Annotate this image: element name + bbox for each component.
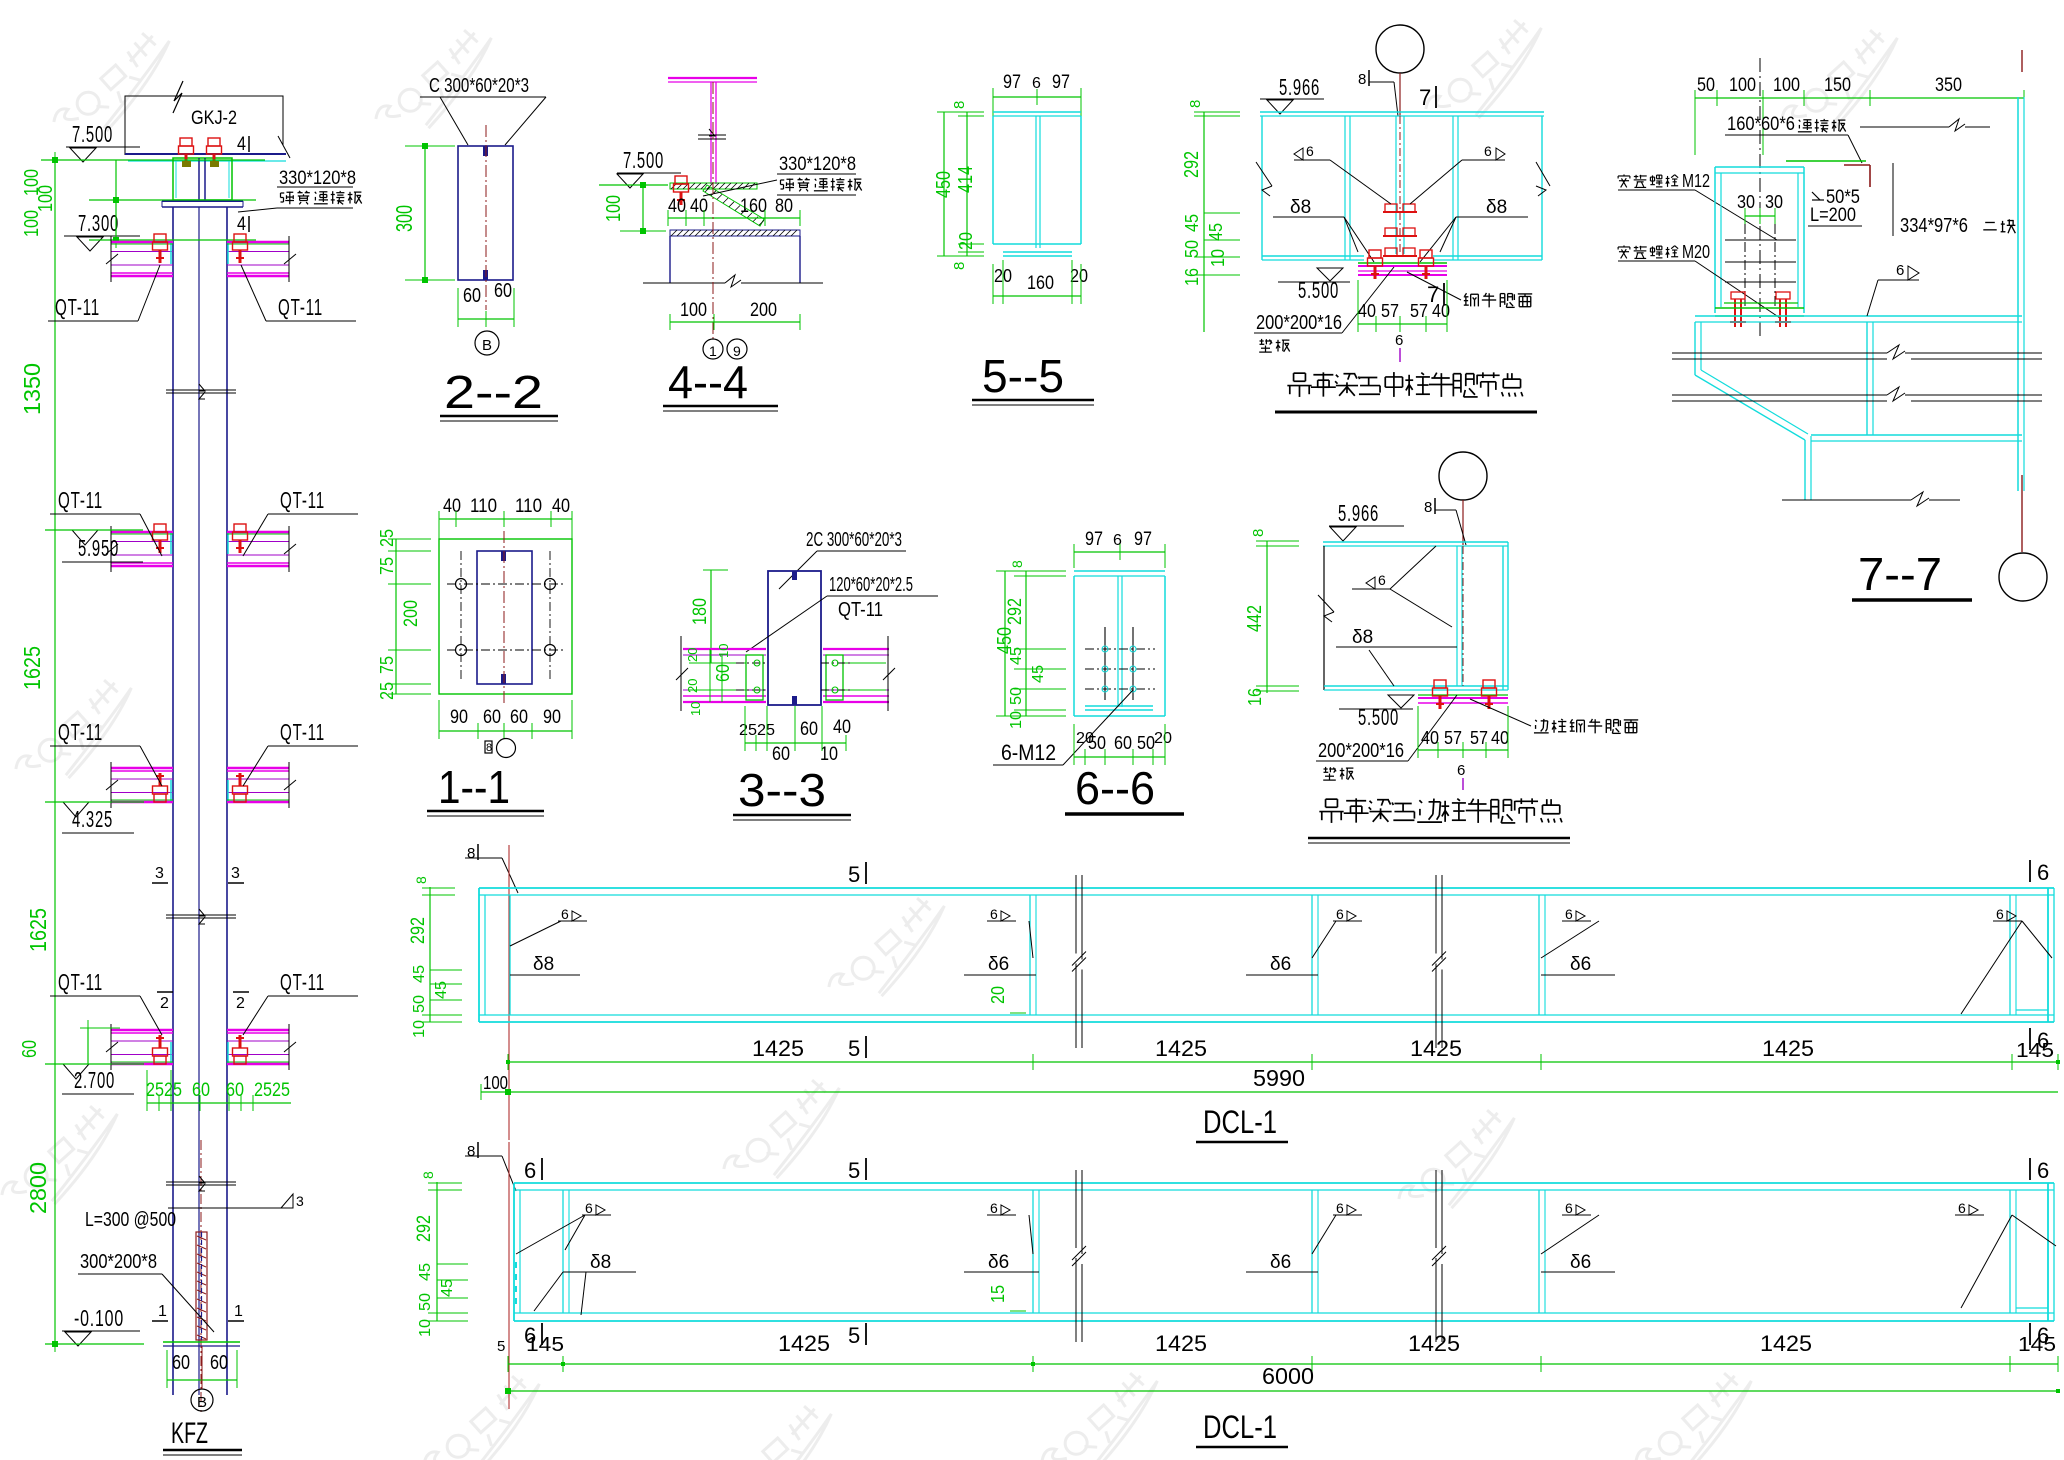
7-7 label 334*97*6 two pieces — [1893, 163, 2015, 237]
2-2 dim 300 — [391, 143, 455, 283]
node1 section mark 7| bottom — [1427, 282, 1444, 307]
beam2 delta6 #2 — [1246, 1252, 1318, 1273]
svg-text:60: 60 — [210, 1352, 228, 1374]
dim 1625 (b) — [25, 908, 51, 952]
svg-text:75: 75 — [377, 557, 397, 575]
svg-text:60: 60 — [772, 744, 790, 765]
roof break mark right — [278, 136, 290, 158]
6-6 bolt group 6-M12 — [1085, 627, 1155, 700]
3-3 dim 180 — [690, 570, 728, 663]
level 5.500 — [1339, 695, 1414, 730]
QT-11 bracket plates — [227, 524, 296, 572]
svg-text:8: 8 — [413, 876, 429, 884]
svg-text:160: 160 — [1027, 273, 1054, 294]
svg-text:60: 60 — [192, 1080, 210, 1101]
node2 label edge bracket face — [1470, 699, 1638, 733]
svg-text:1425: 1425 — [1155, 1331, 1207, 1356]
svg-text:110: 110 — [470, 496, 497, 517]
svg-text:-0.100: -0.100 — [74, 1305, 124, 1331]
beam1 weld arrow 6 #2 — [987, 906, 1033, 958]
svg-text:160: 160 — [740, 196, 767, 217]
svg-text:110: 110 — [515, 496, 542, 517]
svg-text:25: 25 — [739, 722, 757, 739]
svg-text:150: 150 — [1824, 75, 1851, 96]
3-3 label 120*60*20*2.5 / QT-11 — [746, 574, 938, 652]
node1 weld arrow 6 right — [1410, 143, 1505, 204]
beam2 weld arrow 6 #1 — [516, 1200, 611, 1254]
svg-text:5: 5 — [848, 1158, 860, 1183]
6-6 dims 97 6 97 — [1074, 529, 1165, 568]
svg-text:6--6: 6--6 — [1075, 762, 1155, 814]
5-5 I-section — [993, 112, 1081, 248]
svg-text:1425: 1425 — [1760, 1331, 1812, 1356]
7-7 top dims 50 100 100 150 350 — [1695, 75, 2024, 155]
svg-text:90: 90 — [543, 707, 561, 728]
svg-text:5: 5 — [497, 1338, 505, 1355]
grid bubble B — [191, 1346, 213, 1411]
node1 level line ext — [1260, 103, 1324, 105]
svg-text:20: 20 — [1154, 730, 1172, 747]
svg-text:57: 57 — [1470, 728, 1488, 748]
svg-text:4: 4 — [237, 134, 246, 155]
svg-text:δ6: δ6 — [1270, 954, 1291, 975]
node1 left dim chain — [1181, 100, 1240, 332]
beam1 stiffener 1 — [509, 895, 511, 1015]
bracket bolt (flipped) — [233, 1035, 248, 1064]
svg-text:50: 50 — [411, 995, 428, 1013]
column flange lines — [173, 207, 227, 1395]
svg-text:160*60*6: 160*60*6 — [1727, 114, 1795, 135]
svg-text:292: 292 — [1005, 598, 1026, 625]
1-1 centerline red — [503, 531, 505, 704]
level line -0.100 — [45, 1341, 144, 1347]
3-3 bottom dims 2525 60 40 / 60 10 — [739, 706, 851, 765]
6-6 I-section — [1074, 571, 1165, 716]
2-2 channel rect — [458, 146, 513, 280]
title center-column bracket node — [1275, 372, 1537, 412]
svg-text:60: 60 — [19, 1040, 41, 1058]
dim 100 (c) — [21, 210, 43, 237]
svg-text:40: 40 — [552, 496, 570, 517]
beam1 label |6 bottom right — [2030, 1028, 2049, 1053]
svg-text:200*200*16: 200*200*16 — [1318, 740, 1404, 762]
QT-11 bracket plates — [106, 234, 173, 282]
svg-text:8: 8 — [1358, 71, 1366, 88]
svg-text:414: 414 — [955, 166, 977, 193]
6-6 dim 450 — [994, 571, 1066, 716]
node1 delta8 right — [1420, 197, 1528, 262]
1-1 bolt hole D — [545, 645, 556, 656]
beam bottom flange line — [125, 154, 286, 161]
svg-text:100: 100 — [483, 1073, 508, 1093]
svg-text:60: 60 — [1114, 733, 1132, 753]
svg-text:40: 40 — [1421, 728, 1439, 748]
svg-text:60: 60 — [494, 280, 512, 302]
beam2 top flange — [514, 1183, 2054, 1190]
7-7 long member lines break 1 — [1672, 345, 2042, 359]
svg-text:120*60*20*2.5: 120*60*20*2.5 — [829, 574, 913, 596]
svg-text:6: 6 — [1113, 532, 1122, 549]
column red centerline — [200, 1140, 202, 1412]
beam1 delta6 #3 — [1541, 954, 1615, 975]
watermark — [371, 20, 508, 150]
level 5.500 — [1278, 268, 1350, 303]
beam1 top flange — [479, 888, 2054, 895]
svg-text:10: 10 — [1008, 711, 1025, 729]
svg-text:1: 1 — [234, 1303, 243, 1320]
beam2 delta8 — [534, 1252, 636, 1315]
svg-text:334*97*6: 334*97*6 — [1900, 215, 1968, 237]
svg-text:5.950: 5.950 — [78, 535, 119, 561]
QT-11 bracket plates — [106, 1024, 173, 1070]
1-1 base plate green rect — [439, 539, 572, 694]
2-2 dims 60 60 — [458, 280, 514, 327]
beam1 delta6 #2 — [1246, 954, 1318, 975]
svg-text:350: 350 — [1935, 75, 1962, 96]
3-3 channel rect — [768, 571, 821, 705]
dim chain vertical left — [55, 152, 116, 1352]
svg-text:6: 6 — [524, 1158, 536, 1183]
svg-text:50: 50 — [1088, 733, 1106, 753]
beam1 red grid line — [508, 845, 510, 1140]
svg-text:2.700: 2.700 — [74, 1067, 115, 1093]
title 4--4 — [663, 356, 778, 411]
stiffener flag 3 / L=300@500 — [85, 1193, 304, 1231]
svg-text:50: 50 — [1697, 75, 1715, 96]
svg-text:DCL-1: DCL-1 — [1203, 1104, 1277, 1140]
level 7.300 — [64, 210, 140, 251]
svg-text:5990: 5990 — [1253, 1065, 1305, 1091]
dim 1350 — [19, 363, 45, 415]
node1 section mark 7| top — [1419, 85, 1436, 110]
svg-text:97: 97 — [1134, 529, 1152, 550]
svg-text:DCL-1: DCL-1 — [1203, 1409, 1277, 1445]
svg-text:8: 8 — [420, 1171, 436, 1179]
svg-text:145: 145 — [2016, 1040, 2054, 1062]
QT-11 bracket plates — [106, 524, 173, 572]
svg-text:15: 15 — [988, 1285, 1008, 1303]
beam1 weld arrow 6 #5 — [1961, 906, 2052, 1014]
2-2 centerline — [485, 125, 487, 310]
svg-text:45: 45 — [439, 1279, 456, 1297]
svg-text:5--5: 5--5 — [982, 350, 1064, 402]
svg-text:200: 200 — [750, 300, 777, 321]
4-4 spring plate hatched horizontal — [670, 183, 757, 189]
4-4 centerline — [712, 82, 714, 340]
svg-text:50: 50 — [1182, 240, 1202, 258]
svg-text:7.500: 7.500 — [72, 121, 113, 147]
node1 web centerline — [1399, 116, 1401, 254]
title 5--5 — [972, 350, 1094, 405]
svg-text:100: 100 — [21, 210, 43, 237]
svg-text:6: 6 — [1958, 1200, 1966, 1216]
beam2 stiffener 1 — [563, 1190, 569, 1313]
svg-text:75: 75 — [377, 656, 397, 674]
label C 300*60*20*3 — [420, 75, 546, 145]
7-7 dims 30 30 — [1737, 192, 1783, 224]
svg-text:60: 60 — [800, 719, 818, 740]
1-1 channel outline navy — [477, 551, 532, 684]
beam2 dim row 145/1425s — [497, 1331, 2058, 1372]
svg-text:8: 8 — [467, 845, 475, 862]
node1 splice bolts stack — [1383, 204, 1417, 256]
svg-text:8: 8 — [951, 101, 968, 109]
spring connector plate box — [173, 158, 232, 200]
4-4 purlin top flange (magenta tee) — [668, 78, 757, 184]
4-4 grid bubble 9 — [727, 339, 747, 359]
svg-text:C 300*60*20*3: C 300*60*20*3 — [429, 75, 529, 97]
node2 beam webs — [1324, 542, 1508, 690]
1-1 bolt hole C — [456, 645, 467, 656]
1-1 grid bubble B — [485, 739, 516, 758]
svg-text:40: 40 — [690, 196, 708, 217]
svg-text:10: 10 — [411, 1020, 428, 1038]
beam1 label |6 top right — [2030, 860, 2049, 885]
svg-text:7.500: 7.500 — [623, 147, 664, 173]
node2 weld arrow 6 — [1352, 546, 1452, 627]
7-7 second cyan horizontal — [1811, 435, 2022, 441]
svg-text:GKJ-2: GKJ-2 — [191, 108, 237, 129]
beam2 stiffener 2 — [1033, 1190, 1039, 1313]
beam2 label 6| bottom — [524, 1323, 542, 1348]
svg-text:200*200*16: 200*200*16 — [1256, 312, 1342, 334]
svg-text:57: 57 — [1444, 728, 1462, 748]
title edge-column bracket node — [1308, 798, 1570, 843]
beam2 break mark 2 — [1432, 1170, 1446, 1342]
svg-text:8: 8 — [1250, 529, 1267, 537]
svg-text:450: 450 — [933, 171, 955, 198]
3-3 small dims left of bracket — [685, 644, 733, 716]
svg-text:40: 40 — [668, 196, 686, 217]
QT-11 label right (lvl1) — [241, 265, 356, 321]
svg-text:40: 40 — [1491, 728, 1509, 748]
node2 left break — [1318, 595, 1334, 622]
level -0.100 — [62, 1305, 140, 1346]
node1 section mark 8 — [1358, 70, 1398, 116]
watermark — [1037, 1363, 1174, 1460]
svg-text:45: 45 — [1008, 647, 1025, 665]
svg-text:330*120*8: 330*120*8 — [279, 168, 356, 189]
7-7 weld arrow 6 mid — [1867, 262, 1919, 316]
svg-text:1: 1 — [158, 1303, 167, 1320]
5-5 dim chain 8/414/20/8 — [951, 101, 984, 270]
QT-11 label right (lvl3) — [243, 719, 358, 786]
level line 7.300 — [89, 237, 256, 243]
3-3 right purlin assembly — [821, 636, 895, 711]
4-4 lower beam webs — [670, 236, 800, 283]
watermark — [719, 1070, 856, 1200]
beam1 stiffener 3 — [1312, 895, 1318, 1015]
node1 right break — [1536, 162, 1550, 196]
column cap plate — [162, 201, 243, 207]
svg-text:6: 6 — [2037, 1158, 2049, 1183]
QT-11 bracket plates — [227, 234, 296, 282]
node2 beam bottom flange — [1324, 686, 1508, 690]
svg-text:8: 8 — [486, 742, 492, 754]
node1 beam webs and ends — [1262, 116, 1542, 260]
svg-text:1425: 1425 — [1155, 1036, 1207, 1061]
node1 label 200*200*16 pad — [1254, 267, 1394, 352]
4-4 purlin break — [698, 129, 726, 139]
svg-text:2800: 2800 — [25, 1162, 51, 1214]
section mark 2 right — [233, 992, 249, 1012]
7-7 maroon grid verticals — [2021, 50, 2023, 552]
label 330*120*8 spring plate — [238, 168, 362, 212]
GKJ-2 beam box — [125, 81, 283, 155]
beam2 dim 6000 — [505, 1363, 2060, 1394]
title 1--1 — [427, 761, 544, 816]
watermark — [11, 670, 148, 800]
svg-text:1425: 1425 — [1408, 1331, 1460, 1356]
QT-11 label left (lvl2) — [50, 487, 162, 556]
svg-text:100: 100 — [1729, 75, 1756, 96]
beam2 label 5| top — [848, 1158, 866, 1183]
7-7 right column verticals — [2018, 97, 2024, 491]
svg-text:5.500: 5.500 — [1298, 277, 1339, 303]
svg-text:7--7: 7--7 — [1858, 548, 1942, 600]
beam2 left dim chain — [414, 1171, 468, 1337]
svg-text:B: B — [197, 1394, 207, 1411]
svg-text:6: 6 — [1565, 906, 1573, 922]
7-7 centerline — [1759, 58, 1761, 337]
node2 dims 40 57 57 40 — [1418, 706, 1509, 758]
dim 100 (b) — [35, 185, 57, 212]
watermark — [1394, 1100, 1531, 1230]
beam2 label |6 bottom right — [2030, 1323, 2049, 1348]
svg-text:6: 6 — [1395, 332, 1403, 349]
node1 left break — [1256, 162, 1272, 196]
svg-text:97: 97 — [1003, 72, 1021, 93]
svg-text:25: 25 — [377, 682, 397, 700]
QT-11 bracket plates — [227, 762, 296, 808]
beam2 left end plate — [514, 1183, 520, 1321]
svg-text:δ6: δ6 — [1570, 1252, 1591, 1273]
svg-text:6: 6 — [990, 1200, 998, 1216]
beam1 weld arrow 6 #3 — [1312, 906, 1362, 958]
svg-text:6000: 6000 — [1262, 1363, 1314, 1389]
beam2 right end — [2010, 1183, 2054, 1321]
svg-text:20: 20 — [1070, 266, 1088, 286]
svg-text:8: 8 — [1187, 100, 1204, 108]
svg-text:B: B — [482, 337, 492, 354]
beam1 dim row 1425s — [506, 1036, 2060, 1070]
node1 bracket bolts — [1368, 250, 1434, 279]
6-6 bottom dims 20 50 60 50 20 — [1074, 724, 1172, 765]
svg-text:6: 6 — [1336, 906, 1344, 922]
section mark 2 left — [157, 992, 173, 1012]
beam1 label 5| top — [848, 862, 866, 887]
svg-text:100: 100 — [35, 185, 57, 212]
node2 delta8 — [1336, 627, 1457, 686]
svg-text:5: 5 — [848, 862, 860, 887]
node2 label 200*200*16 pad — [1316, 695, 1457, 780]
svg-text:4.325: 4.325 — [72, 806, 113, 832]
7-7 label M20 bolts — [1618, 242, 1780, 318]
svg-text:60: 60 — [463, 285, 481, 307]
4-4 level line — [599, 182, 668, 188]
svg-text:292: 292 — [408, 917, 429, 944]
svg-text:20: 20 — [956, 232, 976, 250]
beam2 stiffener 4 — [1539, 1190, 1545, 1313]
node1 label steel bracket face — [1407, 272, 1532, 307]
section mark 1 left — [152, 1303, 168, 1321]
svg-text:δ6: δ6 — [988, 954, 1009, 975]
7-7 green plate line — [1786, 160, 1866, 162]
svg-text:QT-11: QT-11 — [58, 487, 103, 513]
bolt on GKJ-2 left — [179, 138, 194, 167]
section mark 1 right — [228, 1303, 244, 1321]
4-4 dims 100 200 — [670, 300, 800, 330]
svg-text:45: 45 — [411, 965, 428, 983]
svg-text:50: 50 — [1008, 687, 1025, 705]
svg-text:100: 100 — [603, 195, 625, 222]
svg-text:8: 8 — [951, 262, 968, 270]
watermark — [49, 23, 186, 153]
svg-text:60: 60 — [510, 707, 528, 728]
beam1 right end — [2010, 888, 2054, 1022]
svg-text:L=300 @500: L=300 @500 — [85, 1209, 176, 1231]
beam1 break mark 2 — [1432, 875, 1446, 1048]
svg-text:7: 7 — [1419, 85, 1431, 110]
web stiffener plate hatched — [196, 1232, 207, 1340]
node1 weld arrow 6 left — [1262, 143, 1391, 204]
svg-text:60: 60 — [713, 664, 733, 682]
svg-text:1--1: 1--1 — [438, 761, 510, 813]
svg-text:6: 6 — [1996, 906, 2004, 922]
beam1 left end plate — [479, 888, 485, 1022]
svg-text:10: 10 — [417, 1319, 434, 1337]
1-1 left dim chain 25/75/200/75/25 — [377, 529, 431, 700]
5-5 dim 450 — [933, 112, 984, 256]
svg-text:2C 300*60*20*3: 2C 300*60*20*3 — [806, 529, 902, 551]
svg-text:1425: 1425 — [752, 1036, 804, 1061]
svg-text:25: 25 — [377, 529, 397, 547]
svg-text:L=200: L=200 — [1810, 205, 1856, 226]
svg-text:δ6: δ6 — [1270, 1252, 1291, 1273]
svg-text:4: 4 — [237, 214, 246, 235]
QT-11 bracket plates — [227, 1024, 296, 1070]
level line 5.950 — [45, 529, 143, 531]
svg-text:45: 45 — [417, 1263, 434, 1281]
level line 7.400 — [89, 197, 256, 203]
section mark 3 right — [228, 865, 244, 883]
4-4 label 330*120*8 spring plate — [703, 154, 862, 196]
beam1 stiffener 2 — [1030, 895, 1036, 1015]
7-7 M20 bolts red — [1730, 292, 1791, 327]
svg-text:20: 20 — [685, 648, 700, 662]
title 2--2 — [440, 366, 558, 421]
beam1 dim 100 — [481, 1073, 2058, 1100]
svg-text:QT-11: QT-11 — [280, 719, 325, 745]
node1 grid circle — [1376, 25, 1424, 116]
beam1 bottom flange — [479, 1015, 2054, 1022]
4-4 grid bubble 1 — [703, 339, 723, 359]
bracket bolt (flipped) — [153, 773, 168, 802]
svg-text:δ8: δ8 — [590, 1252, 611, 1273]
svg-text:57: 57 — [1410, 301, 1428, 321]
beam2 break mark 1 — [1072, 1170, 1086, 1342]
dim 60 bracket height — [19, 1020, 120, 1064]
node1 beam bottom flanges — [1262, 256, 1542, 260]
beam1 dim 20 stiffener — [988, 986, 1026, 1013]
svg-text:3--3: 3--3 — [738, 764, 826, 816]
title 7--7 — [1852, 548, 1972, 600]
level line 7.500 — [41, 157, 265, 163]
node1 weld 6 below — [1395, 332, 1403, 362]
svg-text:10: 10 — [716, 644, 731, 658]
7-7 grid circle — [1999, 553, 2047, 601]
svg-text:6: 6 — [2037, 860, 2049, 885]
